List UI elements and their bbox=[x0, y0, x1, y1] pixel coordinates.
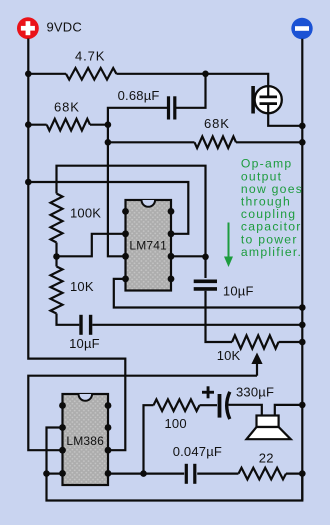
op-amp U1 LM741 body bbox=[126, 200, 172, 291]
svg-text:0.68µF: 0.68µF bbox=[118, 88, 160, 103]
svg-text:22: 22 bbox=[259, 450, 274, 465]
svg-text:9VDC: 9VDC bbox=[47, 20, 82, 35]
resistor 68K-1 bbox=[47, 119, 90, 131]
wire U2 pin2-pin4 gnd bbox=[47, 428, 303, 501]
wire wiper to U2 pin3 bbox=[28, 376, 257, 451]
label + plus bbox=[202, 391, 214, 394]
wire 4.7K row bbox=[28, 73, 66, 75]
wire out up to 100 bbox=[144, 405, 154, 473]
wire 68K-2 row bbox=[108, 141, 195, 143]
resistor 68K-2 bbox=[195, 137, 237, 149]
svg-text:68K: 68K bbox=[204, 116, 230, 131]
svg-text:LM386: LM386 bbox=[66, 434, 104, 448]
resistor 4.7K bbox=[66, 68, 116, 80]
wire U1 pin4 to gnd rail bbox=[114, 279, 302, 308]
resistor 10K bbox=[51, 267, 63, 314]
op-amp U1 pins bbox=[122, 208, 129, 215]
wire U1 output bbox=[171, 255, 206, 257]
wire out to cap 10uF-1 bbox=[204, 257, 206, 278]
node dot node-68K2 bbox=[105, 139, 112, 146]
svg-text:10K: 10K bbox=[70, 279, 94, 294]
node dot rail-68K1 bbox=[25, 121, 32, 128]
svg-text:amplifier.: amplifier. bbox=[241, 245, 302, 259]
node dot pin4gnd-rail bbox=[299, 304, 306, 311]
amp U2 pins bbox=[59, 402, 66, 409]
wire cap to rail bbox=[92, 324, 302, 326]
node dot spk-rail bbox=[299, 402, 306, 409]
wire -9V right rail bbox=[301, 39, 303, 501]
svg-text:100: 100 bbox=[165, 416, 187, 431]
resistor 100K bbox=[51, 194, 63, 243]
capacitor 10uF-2 bbox=[79, 315, 82, 335]
battery + terminal bbox=[17, 17, 39, 39]
potentiometer 10K pot bbox=[232, 335, 279, 348]
node dot rail-pin7 bbox=[25, 179, 32, 186]
node dot U2 out bbox=[140, 470, 147, 477]
wire 10K to cap bbox=[55, 257, 57, 267]
node dot 22-rail bbox=[299, 470, 306, 477]
node dot divider bbox=[53, 253, 60, 260]
svg-text:10µF: 10µF bbox=[69, 336, 100, 351]
svg-text:LM741: LM741 bbox=[129, 239, 167, 253]
svg-text:4.7K: 4.7K bbox=[75, 48, 105, 63]
wire 68K-1 row bbox=[28, 124, 46, 126]
node dot rail-68K2 bbox=[299, 139, 306, 146]
svg-text:10µF: 10µF bbox=[223, 284, 254, 299]
node dot 68K1-node bbox=[105, 121, 112, 128]
capacitor 10uF-1 bbox=[194, 279, 217, 283]
svg-text:330µF: 330µF bbox=[236, 385, 274, 400]
capacitor 0.68uF bbox=[167, 96, 170, 119]
svg-text:10K: 10K bbox=[217, 348, 241, 363]
wire +9V left rail bbox=[28, 39, 125, 451]
microphone MK1 bbox=[255, 86, 282, 113]
wire 0.68uF branch bbox=[176, 74, 206, 108]
capacitor 0.047uF bbox=[185, 464, 188, 484]
wire mic to rail bbox=[268, 113, 302, 126]
annotation green arrow bbox=[228, 223, 230, 259]
node dot U2 gnd bbox=[43, 470, 50, 477]
node dot rail-4.7K bbox=[25, 71, 32, 78]
wire pot to rail bbox=[279, 341, 303, 343]
wire 100 to cap330 bbox=[200, 404, 218, 406]
node dot cap2-rail bbox=[299, 322, 306, 329]
wire 0.047 row bbox=[144, 473, 185, 475]
node dot pot-rail bbox=[299, 339, 306, 346]
wire 100K top feedback bbox=[57, 166, 206, 257]
resistor 100 bbox=[154, 399, 200, 411]
wire cap330 to speaker bbox=[229, 405, 262, 416]
capacitor 330uF bbox=[218, 394, 222, 418]
wire cap to pot bbox=[206, 291, 233, 342]
wire +9V to U1 pin7 bbox=[28, 182, 188, 234]
node dot U1 out bbox=[202, 253, 209, 260]
amp U2 LM386 body bbox=[63, 394, 109, 485]
svg-text:100K: 100K bbox=[70, 205, 101, 220]
svg-text:68K: 68K bbox=[54, 100, 80, 115]
node dot 4.7K-cap bbox=[202, 71, 209, 78]
battery - terminal bbox=[291, 18, 312, 39]
node dot mic-rail bbox=[299, 123, 306, 130]
speaker SPK1 bbox=[257, 416, 279, 428]
svg-text:0.047µF: 0.047µF bbox=[173, 444, 222, 459]
resistor 22 bbox=[239, 468, 287, 480]
wire divider to U1 pin2 bbox=[57, 234, 126, 256]
pot wiper arrow bbox=[256, 362, 258, 376]
wire U2 out bbox=[108, 473, 144, 475]
wire 100K bottom bbox=[55, 243, 57, 257]
